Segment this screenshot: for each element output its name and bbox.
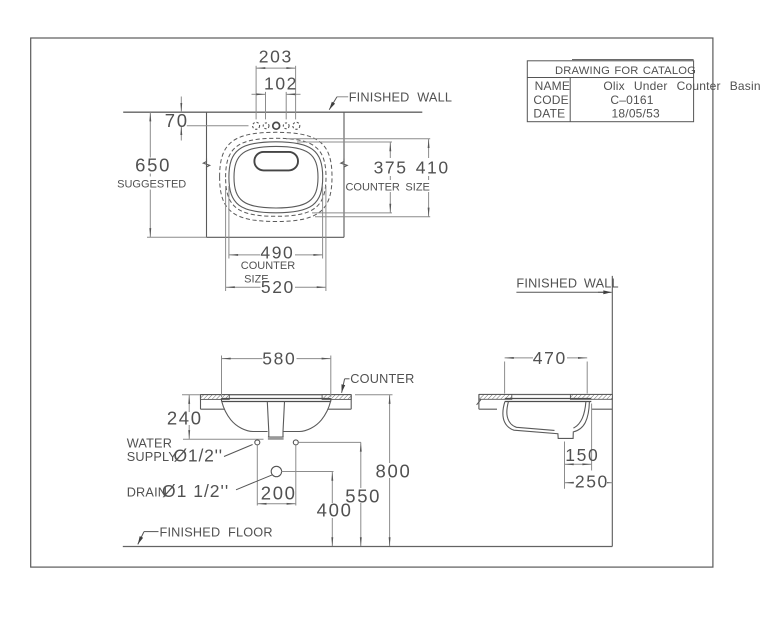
- dim 150 line: [565, 463, 592, 465]
- water line to 550: [299, 441, 361, 443]
- finished wall line (plan): [123, 111, 422, 113]
- finished floor leader dash: [144, 531, 159, 533]
- dim 150 witness left (drain center): [564, 442, 566, 471]
- dim 200 witness right: [295, 445, 297, 505]
- counter bottom left (front): [201, 408, 225, 410]
- svg-text:240: 240: [167, 408, 203, 429]
- bowl outer profile right (front): [283, 402, 331, 432]
- dim 520 witness left: [225, 186, 227, 291]
- dim 102 witness right: [285, 92, 287, 120]
- svg-text:SUPPLY: SUPPLY: [127, 450, 178, 464]
- dim 520 witness right: [325, 186, 327, 291]
- basin flange bottom line (front): [222, 401, 331, 403]
- svg-text:FINISHED FLOOR: FINISHED FLOOR: [160, 526, 273, 540]
- dim 102 arrow tail left: [252, 93, 266, 95]
- basin hidden ellipse 520x410: [226, 138, 326, 216]
- counter hatch left (side): [479, 395, 512, 400]
- dim 70 leader to holes: [187, 125, 249, 127]
- faucet hole 1 dashed: [253, 122, 260, 129]
- counter left end cap (front): [200, 395, 202, 410]
- svg-text:650: 650: [135, 155, 171, 176]
- dim 240 line: [188, 395, 190, 440]
- counter right edge (plan): [343, 112, 345, 237]
- svg-text:DATE: DATE: [533, 107, 565, 121]
- dim 203 witness right: [295, 66, 297, 120]
- basin flange left end cap (front): [221, 399, 223, 402]
- svg-text:150: 150: [565, 445, 599, 465]
- counter top line (side): [479, 394, 612, 396]
- finished wall line (side): [611, 276, 613, 547]
- dim 250 line: [565, 482, 613, 484]
- drain cap line 2 (front): [268, 438, 284, 440]
- dim 375 witness bottom: [312, 212, 392, 214]
- svg-text:C–0161: C–0161: [610, 93, 653, 107]
- basin flange top line (front): [222, 398, 331, 400]
- bowl inner profile left (side): [507, 402, 555, 431]
- svg-text:NAME: NAME: [535, 79, 570, 93]
- overflow pillar right edge (front): [283, 402, 285, 438]
- dim 580 witness left: [221, 356, 223, 398]
- counter bottom left (side): [479, 408, 497, 410]
- counter hatch right (side): [570, 395, 612, 400]
- bowl inner profile right (side): [573, 402, 586, 428]
- counter hatch right (front): [322, 395, 351, 400]
- counter bottom right (side): [592, 408, 613, 410]
- svg-text:550: 550: [345, 485, 381, 506]
- svg-text:410: 410: [416, 158, 450, 178]
- svg-text:203: 203: [259, 47, 293, 67]
- finished wall leader dash: [337, 96, 348, 98]
- dim 400 line: [331, 472, 333, 547]
- dim 550 line: [360, 442, 362, 546]
- dim 410 witness top: [286, 138, 430, 140]
- bowl outer profile left (front): [222, 402, 268, 432]
- drain leader: [236, 475, 272, 490]
- dim 580 witness right: [330, 356, 332, 398]
- drain cap line 1 (front): [268, 436, 284, 438]
- drain line to 400: [281, 471, 333, 473]
- bowl outer profile (side): [503, 402, 590, 439]
- svg-text:520: 520: [261, 277, 295, 297]
- faucet hole 2 dashed: [263, 123, 269, 129]
- counter leader arrow: [342, 379, 345, 393]
- svg-text:470: 470: [533, 348, 567, 368]
- dim 520 line: [226, 286, 326, 288]
- svg-text:Olix Under Counter Basin: Olix Under Counter Basin: [603, 79, 760, 93]
- counter leader dash: [345, 378, 350, 380]
- dim 150 witness right: [591, 404, 593, 471]
- dim 650 line: [149, 112, 151, 237]
- finished wall leader arrow: [329, 97, 337, 110]
- dim 490 witness right: [322, 186, 324, 259]
- dim 250 witness (drain center): [564, 471, 566, 489]
- dim 490 witness left: [228, 186, 230, 259]
- svg-text:102: 102: [264, 74, 298, 94]
- svg-text:WATER: WATER: [127, 436, 172, 450]
- title block header divider: [527, 77, 693, 79]
- dim 102 witness left: [265, 92, 267, 120]
- svg-text:580: 580: [262, 348, 296, 368]
- dim 240 top witness: [182, 394, 200, 396]
- break mark left edge: [203, 159, 209, 171]
- title block top thick segment: [572, 59, 694, 61]
- dim 410 line: [428, 139, 430, 217]
- dim 800 line: [389, 395, 391, 547]
- water supply leader: [224, 445, 253, 457]
- dim 410 witness bottom: [315, 216, 430, 218]
- dim 70 upper arrow: [180, 97, 182, 113]
- water supply circle right: [293, 440, 298, 445]
- break mark right edge: [341, 159, 347, 171]
- basin flange right end cap (front): [330, 399, 332, 402]
- title block column divider: [569, 78, 571, 122]
- faucet hole 5 dashed: [293, 122, 300, 129]
- 650 bottom witness line: [147, 236, 207, 238]
- dim 375 line: [389, 142, 391, 213]
- svg-text:Ø1 1/2'': Ø1 1/2'': [162, 481, 229, 501]
- overflow pillar left edge (front): [267, 402, 269, 438]
- counter left edge (plan): [206, 112, 208, 237]
- bowl inner rim ellipse: [234, 146, 318, 208]
- counter hatch left (front): [200, 395, 229, 400]
- svg-text:COUNTER SIZE: COUNTER SIZE: [345, 181, 429, 193]
- counter bottom edge (plan): [207, 236, 345, 238]
- svg-text:FINISHED WALL: FINISHED WALL: [516, 277, 618, 291]
- drain circle: [271, 466, 281, 476]
- finished floor line: [123, 546, 613, 548]
- overflow slot obround: [254, 152, 298, 171]
- basin flange hidden ellipse 580x470: [220, 132, 332, 221]
- counter top line (front): [200, 394, 351, 396]
- dim 470 witness right: [586, 362, 588, 394]
- dim 490 line: [229, 254, 323, 256]
- basin flange bottom line (side): [505, 401, 592, 403]
- page border: [31, 38, 713, 567]
- svg-text:CODE: CODE: [533, 93, 568, 107]
- basin flange top line (side): [505, 398, 592, 400]
- svg-text:800: 800: [376, 461, 412, 482]
- title block outer box: [527, 61, 693, 122]
- dim 200 line: [257, 503, 296, 505]
- svg-text:18/05/53: 18/05/53: [612, 107, 660, 121]
- dim 240 bottom witness: [183, 438, 264, 440]
- svg-text:DRAWING FOR CATALOG: DRAWING FOR CATALOG: [555, 65, 696, 77]
- dim 580 line: [222, 358, 331, 360]
- svg-text:FINISHED WALL: FINISHED WALL: [349, 90, 452, 104]
- svg-text:COUNTER: COUNTER: [241, 260, 295, 272]
- finished wall underline leader: [516, 291, 603, 293]
- svg-text:70: 70: [165, 110, 189, 131]
- svg-text:200: 200: [261, 483, 297, 504]
- dim 203 witness left: [255, 66, 257, 120]
- dim 102 arrow tail right: [286, 93, 300, 95]
- finished floor leader arrow: [138, 532, 144, 545]
- dim 800 top witness: [355, 394, 393, 396]
- svg-text:375: 375: [374, 158, 408, 178]
- svg-text:Ø1/2'': Ø1/2'': [174, 446, 223, 466]
- dim 203 line: [256, 67, 296, 69]
- counter cutout ellipse 490x375: [229, 142, 323, 213]
- svg-text:SUGGESTED: SUGGESTED: [117, 179, 186, 191]
- counter bottom right (front): [328, 408, 352, 410]
- dim 470 line: [505, 357, 588, 359]
- faucet hole 3 solid: [273, 122, 280, 129]
- counter left end tick (side): [477, 400, 481, 405]
- counter right end cap (front): [350, 395, 352, 410]
- svg-text:COUNTER: COUNTER: [350, 372, 414, 386]
- svg-text:250: 250: [575, 472, 609, 492]
- dim 375 witness top: [297, 141, 392, 143]
- dim 200 witness left: [256, 445, 258, 505]
- water supply circle left: [255, 440, 260, 445]
- counter left end cap (side): [478, 395, 480, 410]
- faucet hole 4 dashed: [283, 123, 289, 129]
- dim 70 lower arrow: [180, 126, 182, 141]
- dim 470 witness left: [504, 362, 506, 394]
